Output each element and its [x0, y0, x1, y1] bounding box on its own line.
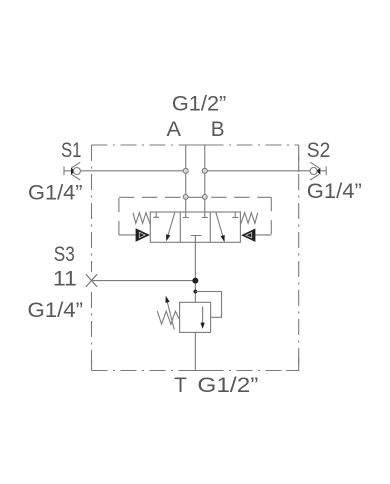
coupling S1 wedge	[71, 168, 75, 175]
wire S1 line	[64, 170, 186, 172]
enclosure corner BR	[286, 358, 299, 371]
wire valve to junction	[194, 242, 196, 302]
blocked port T left box	[153, 212, 159, 217]
enclosure boundary left edge upper	[91, 145, 93, 272]
valve V1 divider left	[179, 212, 181, 242]
junction dot S3/T	[192, 278, 198, 284]
enclosure bottom edge segment at T	[180, 370, 211, 372]
pilot line corner stub right	[255, 234, 271, 236]
coupling S1 circle	[73, 168, 80, 175]
relief valve adjust arrow	[167, 300, 175, 330]
pilot triangle right	[241, 229, 255, 242]
spring left	[133, 213, 150, 224]
pilot triangle left	[136, 228, 150, 242]
plugged port X at S3	[86, 274, 97, 287]
enclosure top edge segment at A/B	[181, 144, 220, 146]
pilot line corner stub left	[119, 234, 136, 236]
relief valve RV1 body	[180, 302, 211, 332]
port S2 tick	[325, 166, 327, 175]
flow arrow right box	[216, 212, 224, 240]
coupling S2 diagonals	[310, 162, 319, 180]
pilot line (dashed) top horizontal	[119, 196, 271, 198]
svg-text:T: T	[174, 373, 187, 397]
enclosure boundary bottom edge	[92, 370, 299, 372]
valve V1 body	[150, 212, 240, 242]
blocked port T center box bottom	[191, 236, 202, 243]
junction dot relief pilot	[193, 290, 197, 294]
coupling S2 circle	[310, 168, 317, 175]
port S1 tick	[63, 166, 65, 175]
svg-text:G1/2”: G1/2”	[172, 92, 226, 116]
wire S2 line	[205, 170, 326, 172]
svg-text:G1/4”: G1/4”	[28, 181, 83, 205]
svg-text:S3: S3	[54, 242, 75, 266]
spring right	[240, 213, 257, 224]
relief valve flow arrow	[202, 307, 204, 324]
svg-text:G1/4”: G1/4”	[307, 179, 362, 203]
enclosure right edge segment at S2	[298, 156, 300, 172]
wire port B vertical	[204, 145, 206, 212]
flow arrow left box	[167, 212, 175, 240]
relief pilot line	[195, 292, 221, 318]
enclosure boundary (dash-dot rectangle) top edge	[92, 144, 299, 146]
relief valve spring	[157, 311, 179, 324]
svg-text:11: 11	[53, 267, 77, 291]
wire relief to T port	[194, 332, 196, 370]
coupling S2 wedge	[316, 168, 320, 175]
svg-text:S1: S1	[61, 138, 82, 162]
node A-pilot crossing	[183, 195, 188, 200]
svg-text:S2: S2	[307, 138, 331, 162]
coupling S1 diagonals	[72, 162, 81, 180]
enclosure boundary left edge lower	[91, 292, 93, 371]
blocked port T center box A	[183, 212, 189, 218]
svg-text:A: A	[167, 117, 182, 141]
enclosure corner BL	[91, 360, 93, 371]
node B-S2 junction	[202, 168, 207, 173]
svg-text:G1/2”: G1/2”	[197, 373, 258, 397]
node A-S1 junction	[183, 168, 188, 173]
enclosure boundary right edge	[298, 145, 300, 371]
svg-text:G1/4”: G1/4”	[28, 298, 84, 322]
valve V1 divider right	[209, 212, 211, 242]
blocked port T right box	[232, 212, 238, 218]
pilot line (dashed) left vertical	[118, 197, 120, 235]
svg-text:B: B	[211, 117, 225, 141]
blocked port T center box B	[202, 212, 208, 218]
pilot line (dashed) right vertical	[270, 197, 272, 235]
wire S3 line	[92, 280, 196, 282]
wire port A vertical	[185, 145, 187, 212]
node B-pilot crossing	[202, 195, 207, 200]
